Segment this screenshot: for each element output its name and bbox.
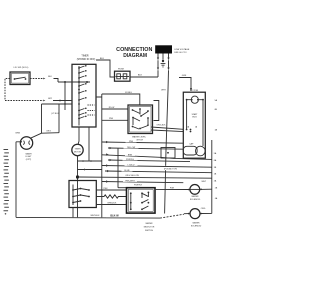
svg-text:WHT-BLK: WHT-BLK: [91, 215, 101, 217]
right edge terminal labels: [214, 99, 218, 200]
svg-text:LT-BLU: LT-BLU: [128, 164, 135, 166]
svg-text:WATER: WATER: [193, 222, 201, 225]
water temp switch S3 (left bottom): [69, 181, 96, 218]
timer left stub wires: [42, 100, 73, 115]
harness rows: wire ORG-YEL from junction: [76, 173, 212, 179]
svg-text:PNK-WHT: PNK-WHT: [125, 180, 135, 182]
timer T1 box: [72, 56, 96, 128]
svg-text:EFF. 60 CYC.: EFF. 60 CYC.: [175, 52, 188, 54]
svg-text:LIGHT: LIGHT: [26, 156, 33, 158]
wire GRY lid switch dashed return: [5, 79, 60, 102]
svg-text:(LT BLU: (LT BLU: [51, 113, 59, 115]
svg-text:GRN: GRN: [182, 75, 187, 77]
wire timer bottom right leg: [88, 127, 90, 161]
svg-text:GRY: GRY: [48, 98, 53, 100]
svg-text:WASH: WASH: [26, 152, 32, 155]
svg-text:PURPLE: PURPLE: [134, 185, 143, 187]
svg-text:BLK: BLK: [138, 75, 143, 77]
svg-text:(OPT): (OPT): [26, 159, 32, 161]
plug prong WHT with connector arrows: [167, 54, 169, 71]
timer junction row node: [58, 81, 90, 83]
svg-text:FUSE: FUSE: [118, 69, 124, 71]
cabinet bottom wire WHT-BLK: [16, 214, 184, 218]
timer internal contacts: [78, 65, 94, 126]
harness rows: wire PURPLE: [108, 157, 190, 162]
svg-text:MOTOR: MOTOR: [74, 151, 82, 153]
svg-text:WHT: WHT: [161, 90, 166, 92]
label BLK-W on bottom wire: [106, 213, 123, 218]
svg-text:YELLOW: YELLOW: [127, 147, 135, 149]
svg-text:ORG-BLK: ORG-BLK: [156, 125, 166, 127]
wire ORG-BLK water level switch to motor: [151, 125, 183, 132]
wire PNK temp switch to selector: [96, 188, 126, 190]
connector block on rows: [161, 148, 175, 159]
wire BLK lid switch dashed to timer: [30, 76, 58, 82]
left edge hatch strip: [4, 150, 9, 215]
water level switch S2: [128, 105, 153, 141]
right bus vertical: [211, 140, 213, 213]
wire stub at timer motor right: [78, 160, 102, 162]
wire BRN light return down left: [15, 142, 17, 218]
resistor R1: [96, 195, 126, 198]
svg-text:PURPLE: PURPLE: [126, 159, 135, 161]
inner vertical bus x118: [117, 149, 119, 188]
svg-text:WATER LEVEL: WATER LEVEL: [132, 136, 147, 139]
svg-text:SELECTOR: SELECTOR: [144, 227, 155, 229]
svg-text:(SHOWN IN OFF): (SHOWN IN OFF): [77, 59, 96, 61]
harness rows: wire BRN: [102, 152, 212, 159]
svg-text:DIAGRAM: DIAGRAM: [123, 53, 147, 59]
svg-text:BLUE: BLUE: [124, 170, 130, 172]
svg-text:RD-W: RD-W: [109, 107, 115, 109]
wire BLK timer to fuse: [96, 58, 115, 77]
svg-text:BRN-BLK: BRN-BLK: [108, 202, 117, 204]
svg-text:BRN: BRN: [16, 132, 21, 134]
svg-text:WDG: WDG: [192, 117, 197, 119]
svg-text:PNK: PNK: [103, 188, 108, 190]
wire PNK to water level switch: [102, 118, 128, 120]
lid switch S1 box: [10, 67, 30, 85]
svg-text:PNK: PNK: [129, 141, 134, 143]
wire PURPLE to selector switch: [118, 185, 143, 188]
svg-text:BLK-W: BLK-W: [110, 215, 119, 218]
harness rows: wire LT-BLU: [102, 162, 212, 167]
power plug P1 (line cord): [155, 45, 190, 54]
title CONNECTION DIAGRAM: [116, 47, 153, 59]
wire RD-W to water level switch: [102, 107, 128, 109]
wire ORG light to bus: [42, 104, 60, 133]
node bus vertical x60: [58, 104, 60, 133]
wash light L1: [16, 132, 42, 161]
svg-text:SOLENOID: SOLENOID: [191, 225, 202, 227]
water selector switch S4 (bold box): [127, 188, 156, 232]
svg-text:PUR: PUR: [170, 187, 175, 189]
svg-text:BLK: BLK: [48, 76, 52, 78]
svg-text:TIMER: TIMER: [81, 56, 88, 58]
svg-text:BLK: BLK: [100, 58, 105, 60]
svg-text:ORG: ORG: [46, 130, 51, 132]
wire BRN-BLK: [96, 202, 126, 204]
connector bracket right of water level switch: [154, 101, 159, 121]
svg-text:TIMER: TIMER: [75, 149, 82, 151]
svg-text:(FOUND TOP): (FOUND TOP): [164, 168, 177, 170]
harness rows: wire PNK: [102, 139, 184, 143]
harness rows: wire YELLOW: [108, 145, 183, 149]
svg-text:WHT: WHT: [202, 181, 207, 183]
svg-text:WATER: WATER: [146, 222, 154, 225]
svg-text:LINE VOLTAGE: LINE VOLTAGE: [175, 48, 190, 51]
svg-text:SOLENOID: SOLENOID: [190, 199, 201, 201]
node bus vertical x65: [64, 82, 66, 110]
wire GRN to motor frame: [179, 75, 192, 91]
svg-text:LID SW (W-10): LID SW (W-10): [14, 67, 29, 69]
wire GY-BLU timer to water level switch: [96, 92, 140, 105]
svg-text:ORG-YELLOW: ORG-YELLOW: [125, 175, 139, 177]
svg-text:BRN: BRN: [128, 154, 133, 156]
harness rows: wire PNK-WHT: [102, 178, 184, 182]
plug prong BLK with connector arrows: [157, 54, 159, 78]
svg-text:GY-BLU: GY-BLU: [125, 92, 133, 94]
svg-text:START: START: [192, 113, 199, 116]
label located on top of motor: [159, 166, 184, 170]
motor capacitor C1: [183, 143, 205, 156]
wire BLK fuse to plug: [130, 75, 158, 77]
motor winding circle: [186, 96, 204, 146]
svg-text:CAP: CAP: [189, 143, 194, 146]
cold water solenoid V2: [184, 208, 212, 228]
fuse F1: [115, 69, 131, 82]
svg-text:PNK: PNK: [109, 118, 114, 120]
svg-text:ORG: ORG: [201, 208, 206, 210]
svg-text:SWITCH: SWITCH: [145, 230, 153, 232]
harness rows: wire BLUE: [105, 168, 212, 173]
svg-text:WATER: WATER: [192, 195, 200, 198]
motor M1 box: [183, 90, 205, 158]
timer motor TM: [72, 127, 83, 217]
wire WHT vertical from plug to bottom: [161, 70, 168, 213]
svg-text:MOTOR: MOTOR: [190, 90, 199, 92]
hot water solenoid V1: [155, 181, 212, 201]
ground prong GRN chassis symbol: [161, 54, 166, 67]
inner vertical bus x103: [101, 94, 103, 217]
